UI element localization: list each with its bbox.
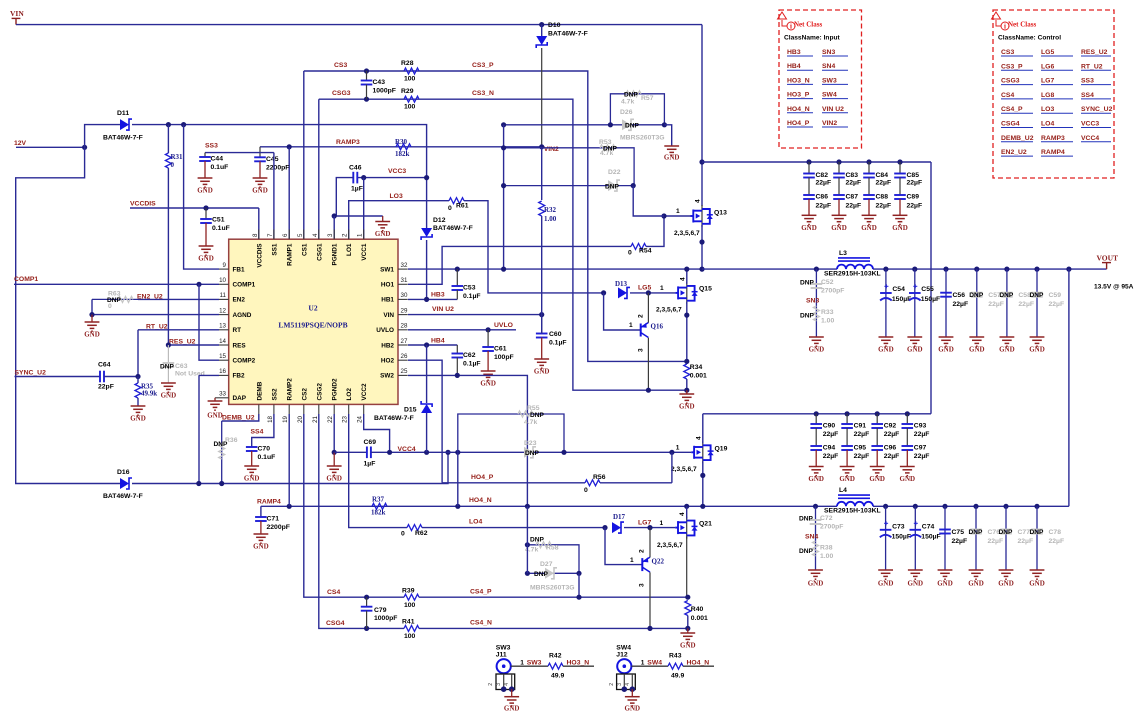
svg-text:GND: GND bbox=[998, 580, 1014, 588]
svg-text:DNP: DNP bbox=[534, 571, 549, 578]
svg-text:VCC3: VCC3 bbox=[388, 168, 406, 175]
svg-text:C90: C90 bbox=[823, 423, 836, 430]
snubber DNP C72 R38 SN4 bbox=[813, 504, 818, 509]
node VOUT junction C55 bbox=[912, 267, 917, 272]
ground R34 bbox=[686, 390, 688, 394]
svg-text:GND: GND bbox=[937, 580, 953, 588]
svg-text:RT: RT bbox=[233, 327, 242, 334]
ground SN4 snubber bbox=[808, 570, 823, 579]
svg-text:4: 4 bbox=[679, 277, 686, 281]
capacitor C89 bbox=[899, 178, 901, 196]
svg-text:CSG2: CSG2 bbox=[316, 383, 323, 401]
svg-text:SW1: SW1 bbox=[380, 266, 394, 273]
node R34 top junction bbox=[684, 359, 689, 364]
svg-text:EN2: EN2 bbox=[233, 297, 246, 304]
node VCC4 D15 junction bbox=[424, 450, 429, 455]
svg-text:SER2915H-103KL: SER2915H-103KL bbox=[824, 508, 881, 515]
svg-text:22µF: 22µF bbox=[854, 453, 870, 460]
diode D26 DNP bbox=[504, 124, 665, 126]
svg-text:SS3: SS3 bbox=[205, 143, 218, 150]
resistor R29 bbox=[404, 96, 419, 102]
node rail junction C84 bbox=[866, 159, 871, 164]
diode D27 DNP bbox=[527, 572, 579, 574]
svg-text:24: 24 bbox=[357, 415, 364, 422]
svg-text:HB3: HB3 bbox=[787, 49, 801, 56]
svg-text:CS3_N: CS3_N bbox=[472, 90, 494, 97]
wire UVLO row bbox=[408, 329, 516, 331]
svg-text:HO3_P: HO3_P bbox=[787, 92, 810, 99]
svg-text:DNP: DNP bbox=[999, 292, 1014, 299]
wire D11 cathode to VCC corner bbox=[132, 125, 427, 178]
capacitor C71 bbox=[260, 506, 262, 517]
svg-text:DNP: DNP bbox=[625, 122, 640, 129]
transistor Q19 bbox=[702, 441, 704, 463]
svg-text:22µF: 22µF bbox=[988, 538, 1004, 545]
svg-text:GND: GND bbox=[480, 380, 496, 388]
transistor Q22 bbox=[641, 558, 643, 571]
svg-text:23: 23 bbox=[342, 415, 349, 422]
pin 14 RES bbox=[219, 344, 229, 346]
svg-text:C86: C86 bbox=[816, 194, 829, 201]
svg-text:20: 20 bbox=[297, 415, 304, 422]
pin 32 SW1 bbox=[398, 268, 408, 270]
wire HO4_P row bbox=[442, 482, 585, 484]
pin 23 LO2 bbox=[348, 404, 350, 414]
svg-text:22µF: 22µF bbox=[876, 202, 892, 209]
netclass box Input bbox=[779, 10, 862, 148]
svg-text:R40: R40 bbox=[691, 606, 704, 613]
node D17 anode junction bbox=[602, 525, 607, 530]
wire CS3 row bbox=[303, 71, 305, 239]
resistor R31 bbox=[167, 125, 169, 153]
ground C76 bbox=[969, 570, 984, 579]
svg-text:AGND: AGND bbox=[233, 312, 252, 319]
svg-text:D16: D16 bbox=[117, 469, 130, 476]
wire J11 pin1 bbox=[511, 665, 548, 667]
svg-text:11: 11 bbox=[220, 292, 227, 299]
svg-text:22µF: 22µF bbox=[846, 202, 862, 209]
node Q15 source junction bbox=[684, 313, 689, 318]
wire SW1 row from pin32 bbox=[408, 268, 702, 270]
svg-text:RES: RES bbox=[233, 342, 247, 349]
pin 19 RAMP2 bbox=[288, 404, 290, 414]
wire COMP1-COMP2 tie bbox=[199, 284, 219, 360]
svg-text:SW3: SW3 bbox=[496, 645, 511, 652]
pin 7 SS1 bbox=[273, 230, 275, 240]
node ch2 vout junction C77 bbox=[1003, 504, 1008, 509]
ground C78 bbox=[1030, 570, 1045, 579]
capacitor C56 bbox=[945, 269, 947, 337]
wire CSG2 dropper / CS4_N row bbox=[319, 414, 404, 628]
svg-text:C45: C45 bbox=[266, 156, 279, 163]
svg-text:SW3: SW3 bbox=[822, 77, 837, 84]
capacitor C95 bbox=[846, 428, 848, 446]
pin 33 DAP bbox=[219, 397, 229, 399]
svg-text:22µF: 22µF bbox=[816, 202, 832, 209]
ground C77 bbox=[999, 570, 1014, 579]
svg-text:HB4: HB4 bbox=[431, 338, 445, 345]
wire RAMP3 row bbox=[260, 146, 542, 148]
svg-text:4: 4 bbox=[625, 683, 631, 686]
svg-text:D13: D13 bbox=[615, 280, 628, 288]
svg-text:DAP: DAP bbox=[233, 395, 247, 402]
resistor R37 bbox=[372, 503, 387, 509]
diode D23 DNP bbox=[524, 447, 533, 458]
wire HB1 row bbox=[408, 298, 457, 300]
svg-text:CSG3: CSG3 bbox=[1001, 78, 1020, 85]
svg-text:Net Class: Net Class bbox=[794, 21, 822, 29]
svg-text:HO4_P: HO4_P bbox=[471, 474, 494, 481]
svg-text:CSG4: CSG4 bbox=[1001, 121, 1020, 128]
svg-text:GND: GND bbox=[900, 475, 916, 483]
pin 11 EN2 bbox=[219, 298, 229, 300]
svg-text:1µF: 1µF bbox=[351, 186, 363, 193]
svg-text:1000pF: 1000pF bbox=[373, 88, 396, 95]
svg-text:GND: GND bbox=[375, 230, 391, 238]
resistor R54 bbox=[631, 243, 646, 249]
svg-text:C97: C97 bbox=[914, 445, 927, 452]
svg-text:GND: GND bbox=[161, 392, 177, 400]
pin 5 CS1 bbox=[303, 230, 305, 240]
resistor R43 bbox=[668, 663, 683, 669]
wire FB1 riser bbox=[184, 125, 219, 270]
svg-text:DNP: DNP bbox=[969, 292, 984, 299]
svg-text:C52: C52 bbox=[821, 279, 834, 286]
node Q16 emitter junction bbox=[646, 388, 651, 393]
pin 22 PGND2 bbox=[333, 404, 335, 414]
svg-text:C60: C60 bbox=[549, 331, 562, 338]
svg-text:D17: D17 bbox=[613, 513, 626, 521]
svg-text:4: 4 bbox=[695, 436, 702, 440]
capacitor C46 bbox=[353, 172, 357, 184]
capacitor C92 bbox=[876, 414, 878, 424]
node HB1 D12 junction bbox=[424, 297, 429, 302]
wire R54 to Q13 gate bbox=[646, 216, 691, 246]
diode D10 bbox=[541, 25, 543, 36]
svg-text:D27: D27 bbox=[540, 561, 553, 568]
ground SN3 snubber bbox=[809, 337, 824, 346]
node D13 anode junction bbox=[601, 290, 606, 295]
diode D22 DNP bbox=[504, 185, 634, 187]
svg-text:C59: C59 bbox=[1049, 292, 1062, 299]
node Q13 gate junction bbox=[661, 213, 666, 218]
svg-text:C72: C72 bbox=[820, 515, 833, 522]
svg-text:GND: GND bbox=[968, 580, 984, 588]
svg-text:DEMB_U2: DEMB_U2 bbox=[1001, 135, 1034, 142]
svg-text:GND: GND bbox=[534, 368, 550, 376]
node VIN2 rail junction bbox=[699, 159, 704, 164]
svg-text:3: 3 bbox=[617, 683, 623, 686]
svg-text:33: 33 bbox=[219, 391, 226, 398]
svg-text:i: i bbox=[790, 23, 792, 31]
svg-text:22µF: 22µF bbox=[816, 180, 832, 187]
wire ch2 input cap rail bbox=[703, 413, 931, 415]
svg-text:CS3: CS3 bbox=[1001, 49, 1014, 56]
pin 12 AGND bbox=[219, 314, 229, 316]
svg-text:C71: C71 bbox=[267, 516, 280, 523]
transistor Q15 bbox=[686, 282, 688, 304]
svg-text:BAT46W-7-F: BAT46W-7-F bbox=[433, 225, 473, 232]
svg-text:R36: R36 bbox=[225, 437, 238, 444]
svg-text:4.7k: 4.7k bbox=[621, 99, 634, 106]
ground C94 bbox=[815, 450, 817, 467]
wire HO1 to R54 bbox=[408, 246, 631, 284]
svg-text:R58: R58 bbox=[546, 545, 559, 552]
ground C75 bbox=[938, 570, 953, 579]
wire RT riser to SYNC row bbox=[137, 330, 139, 377]
wire LO4 row to D17 bbox=[422, 527, 605, 529]
resistor R61 bbox=[449, 198, 464, 204]
svg-text:RES_U2: RES_U2 bbox=[1081, 49, 1108, 56]
pin 21 CSG2 bbox=[318, 404, 320, 414]
svg-text:R32: R32 bbox=[544, 206, 557, 214]
svg-text:LO4: LO4 bbox=[469, 519, 482, 526]
capacitor C44 bbox=[204, 153, 206, 157]
svg-text:R56: R56 bbox=[593, 474, 606, 481]
svg-text:DNP: DNP bbox=[1030, 529, 1045, 536]
svg-text:DNP: DNP bbox=[799, 516, 814, 523]
svg-text:CS2: CS2 bbox=[301, 388, 308, 401]
svg-text:ClassName: Control: ClassName: Control bbox=[998, 35, 1061, 42]
svg-text:1: 1 bbox=[520, 659, 524, 666]
ground C61 bbox=[481, 371, 496, 380]
resistor R57 DNP bbox=[610, 94, 664, 125]
svg-text:22: 22 bbox=[327, 415, 334, 422]
svg-text:HO3_N: HO3_N bbox=[787, 77, 810, 84]
svg-text:RAMP2: RAMP2 bbox=[287, 378, 294, 401]
svg-text:J11: J11 bbox=[496, 652, 507, 659]
svg-text:DNP: DNP bbox=[969, 529, 984, 536]
svg-text:26: 26 bbox=[401, 353, 408, 360]
svg-text:D12: D12 bbox=[433, 217, 446, 224]
node rail junction C90 bbox=[814, 411, 819, 416]
svg-text:16: 16 bbox=[219, 368, 226, 375]
svg-text:GND: GND bbox=[326, 475, 342, 483]
svg-text:RT_U2: RT_U2 bbox=[1081, 63, 1103, 70]
capacitor C87 bbox=[838, 178, 840, 196]
node CSG3 junction bbox=[364, 97, 369, 102]
svg-text:49.9: 49.9 bbox=[671, 673, 684, 680]
node SW2 C62 junction bbox=[455, 373, 460, 378]
ground C95 bbox=[846, 450, 848, 467]
svg-text:0.1uF: 0.1uF bbox=[258, 454, 276, 461]
diode D11 bbox=[120, 119, 129, 130]
svg-text:SN4: SN4 bbox=[805, 534, 818, 541]
ground PGND2 bbox=[333, 414, 335, 452]
wire CS2 dropper / CS4 row bbox=[304, 414, 404, 597]
node Q19 source junction bbox=[700, 473, 705, 478]
svg-text:CS4_N: CS4_N bbox=[470, 620, 492, 627]
capacitor C54 bbox=[885, 269, 887, 337]
node RAMP1 riser junction bbox=[287, 144, 292, 149]
svg-text:1: 1 bbox=[676, 445, 680, 452]
wire RAMP1 riser bbox=[288, 147, 290, 239]
svg-text:VCCDIS: VCCDIS bbox=[130, 201, 156, 208]
resistor R34 bbox=[684, 364, 690, 379]
svg-text:1: 1 bbox=[629, 322, 633, 329]
svg-text:1: 1 bbox=[676, 208, 680, 215]
svg-text:C93: C93 bbox=[914, 423, 927, 430]
node D16 R36 junction bbox=[219, 481, 224, 486]
svg-text:C51: C51 bbox=[212, 217, 225, 224]
svg-text:C89: C89 bbox=[907, 194, 920, 201]
svg-text:R62: R62 bbox=[415, 530, 428, 537]
wire D22 to Q13 gate row bbox=[633, 186, 664, 216]
wire Q19 gate drop to HO4_P bbox=[671, 452, 673, 483]
resistor R58 DNP bbox=[527, 545, 579, 574]
svg-text:R34: R34 bbox=[690, 364, 703, 371]
svg-text:CS1: CS1 bbox=[301, 243, 308, 256]
ground C87 bbox=[838, 199, 840, 215]
svg-text:Q21: Q21 bbox=[699, 521, 712, 528]
svg-text:HO1: HO1 bbox=[381, 282, 395, 289]
node RAMP3 VIN2 junction bbox=[539, 144, 544, 149]
ground C45 bbox=[253, 178, 268, 187]
svg-text:GND: GND bbox=[892, 224, 908, 232]
svg-text:182k: 182k bbox=[371, 509, 386, 517]
wire EN2 row bbox=[138, 298, 219, 300]
wire RAMP2 dropper bbox=[288, 414, 290, 506]
svg-text:R57: R57 bbox=[641, 95, 654, 102]
node D16 FB2 junction bbox=[196, 481, 201, 486]
svg-text:GND: GND bbox=[869, 475, 885, 483]
wire 12V to D11 anode bbox=[85, 125, 120, 148]
svg-text:GND: GND bbox=[252, 187, 268, 195]
node rail junction C92 bbox=[875, 411, 880, 416]
svg-text:BAT46W-7-F: BAT46W-7-F bbox=[548, 31, 588, 38]
svg-text:VIN2: VIN2 bbox=[822, 120, 837, 127]
svg-text:22µF: 22µF bbox=[988, 301, 1004, 308]
svg-text:19: 19 bbox=[282, 415, 289, 422]
svg-text:HO2: HO2 bbox=[381, 358, 395, 365]
svg-text:R42: R42 bbox=[549, 653, 562, 660]
svg-text:C92: C92 bbox=[884, 423, 897, 430]
ground AGND bbox=[91, 315, 93, 322]
svg-text:C73: C73 bbox=[892, 524, 905, 531]
wire R43 out bbox=[683, 665, 714, 667]
capacitor C90 bbox=[815, 414, 817, 424]
wire CS4_P row bbox=[419, 596, 688, 598]
wire Q22 collector bbox=[649, 528, 651, 558]
svg-text:C85: C85 bbox=[907, 172, 920, 179]
wire Q16 collector bbox=[647, 293, 649, 323]
svg-text:4.7k: 4.7k bbox=[524, 419, 537, 426]
pin 18 SS2 bbox=[273, 404, 275, 414]
wire LO2 dropper / LO4 row bbox=[349, 414, 407, 528]
wire D16 row bbox=[132, 452, 448, 483]
svg-text:DNP: DNP bbox=[1030, 292, 1045, 299]
svg-text:0: 0 bbox=[401, 531, 405, 538]
svg-text:150µF: 150µF bbox=[921, 533, 940, 540]
svg-text:VCC4: VCC4 bbox=[398, 446, 416, 453]
ground R40 bbox=[687, 628, 689, 633]
svg-text:Q16: Q16 bbox=[651, 323, 664, 331]
node VCC3 D12 junction bbox=[424, 175, 429, 180]
pin 26 HO2 bbox=[398, 359, 408, 361]
pin 15 COMP2 bbox=[219, 359, 229, 361]
svg-text:1.00: 1.00 bbox=[544, 215, 557, 223]
svg-text:7: 7 bbox=[267, 233, 274, 237]
svg-text:49.9k: 49.9k bbox=[141, 390, 157, 398]
svg-text:L4: L4 bbox=[839, 487, 847, 494]
svg-text:R29: R29 bbox=[401, 88, 414, 95]
svg-text:DNP: DNP bbox=[530, 412, 545, 419]
svg-text:12: 12 bbox=[219, 307, 226, 314]
node R34 bottom junction bbox=[684, 388, 689, 393]
svg-text:VOUT: VOUT bbox=[1097, 254, 1119, 263]
ground C89 bbox=[899, 199, 901, 215]
svg-text:C79: C79 bbox=[374, 607, 387, 614]
svg-text:C53: C53 bbox=[463, 285, 476, 292]
ground C88 bbox=[868, 199, 870, 215]
svg-text:UVLO: UVLO bbox=[376, 327, 394, 334]
wire Q15 source to R34 bbox=[686, 302, 688, 364]
resistor R53 DNP bbox=[504, 148, 634, 186]
wire FB2 row bbox=[199, 374, 219, 376]
svg-text:22µF: 22µF bbox=[907, 202, 923, 209]
wire VOUT row bbox=[873, 268, 1107, 270]
svg-text:C70: C70 bbox=[258, 446, 271, 453]
svg-text:150µF: 150µF bbox=[921, 296, 940, 303]
svg-text:DNP: DNP bbox=[530, 537, 545, 544]
node D26 right junction bbox=[662, 122, 667, 127]
svg-text:2700pF: 2700pF bbox=[820, 524, 843, 531]
svg-text:FB1: FB1 bbox=[233, 266, 246, 273]
svg-text:C75: C75 bbox=[952, 529, 965, 536]
svg-text:DNP: DNP bbox=[799, 548, 814, 555]
svg-text:GND: GND bbox=[861, 224, 877, 232]
wire LG5 gate row bbox=[630, 292, 675, 294]
resistor R28 bbox=[404, 68, 419, 74]
diode D13 bbox=[618, 287, 627, 298]
ground C70 bbox=[244, 466, 259, 475]
svg-text:12V: 12V bbox=[14, 140, 27, 147]
svg-text:R31: R31 bbox=[171, 153, 184, 161]
wire SW1 to L3 bbox=[702, 268, 837, 270]
node D27 junction bbox=[576, 571, 581, 576]
capacitor C97 bbox=[906, 428, 908, 446]
svg-text:C61: C61 bbox=[494, 346, 507, 353]
wire Q19 drain to rail bbox=[702, 414, 704, 444]
svg-text:150µF: 150µF bbox=[892, 533, 911, 540]
svg-text:GND: GND bbox=[808, 475, 824, 483]
wire Q16 emitter bbox=[647, 338, 649, 391]
capacitor C93 bbox=[906, 414, 908, 424]
wire R56 to Q19 gate bbox=[600, 482, 672, 484]
pin 8 VCCDIS bbox=[258, 230, 260, 240]
wire HB2 row bbox=[408, 344, 457, 346]
svg-text:1.00: 1.00 bbox=[821, 318, 834, 325]
svg-text:C64: C64 bbox=[98, 362, 111, 369]
capacitor C96 bbox=[876, 428, 878, 446]
svg-text:2: 2 bbox=[488, 683, 494, 686]
svg-text:22µF: 22µF bbox=[884, 431, 900, 438]
node D11 out junction 2 bbox=[181, 122, 186, 127]
capacitor C51 bbox=[205, 208, 207, 219]
svg-text:LO2: LO2 bbox=[346, 388, 353, 401]
svg-text:6: 6 bbox=[282, 233, 289, 237]
pin 2 LO1 bbox=[348, 230, 350, 240]
svg-text:C91: C91 bbox=[854, 423, 867, 430]
node R40 bottom junction bbox=[685, 626, 690, 631]
svg-text:RAMP4: RAMP4 bbox=[1041, 149, 1065, 156]
svg-text:1: 1 bbox=[660, 285, 664, 292]
svg-text:C46: C46 bbox=[349, 165, 362, 172]
svg-text:GND: GND bbox=[625, 705, 641, 713]
svg-text:HO4_P: HO4_P bbox=[787, 120, 810, 127]
resistor R42 bbox=[548, 663, 563, 669]
node rail junction C83 bbox=[836, 159, 841, 164]
